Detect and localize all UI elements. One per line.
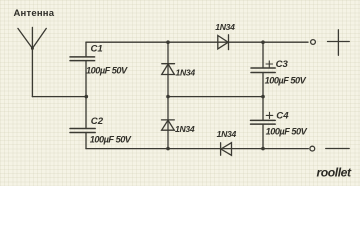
node top rail / C3 column junction: [261, 40, 265, 44]
svg-text:roollet: roollet: [317, 165, 352, 179]
plus mark C4: [266, 112, 273, 118]
node middle rail left junction: [166, 95, 170, 99]
value C1 100uF 50V: [86, 66, 128, 76]
label D4 1N34: [217, 129, 237, 139]
wire top rail: [86, 41, 308, 43]
wire C3 top lead: [262, 42, 264, 68]
svg-text:C2: C2: [91, 116, 104, 127]
capacitor C4: [251, 120, 276, 124]
capacitor C2: [70, 129, 95, 133]
label C1: [91, 44, 103, 55]
wire C2 bottom lead: [85, 133, 87, 149]
value C3 100uF 50V: [265, 76, 307, 86]
wire C1 to node A: [85, 61, 87, 97]
svg-text:100µF 50V: 100µF 50V: [265, 76, 307, 86]
svg-text:1N34: 1N34: [176, 68, 196, 78]
label C3: [276, 59, 289, 70]
wire bottom rail: [86, 148, 308, 150]
minus output symbol: [326, 148, 350, 150]
antenna: [18, 27, 46, 50]
terminal minus circle: [310, 146, 315, 151]
wire C1 top lead: [85, 42, 87, 57]
node A junction: [85, 95, 89, 99]
capacitor C3: [251, 68, 275, 73]
svg-text:1N34: 1N34: [217, 129, 237, 139]
svg-text:100µF 50V: 100µF 50V: [266, 127, 308, 137]
label C4: [276, 110, 289, 121]
svg-text:C1: C1: [91, 44, 103, 55]
svg-text:1N34: 1N34: [215, 22, 235, 32]
diode D3 1N34 lower: [162, 120, 175, 130]
wire C3 to C4: [262, 73, 264, 121]
diode D2 1N34 upper: [162, 64, 175, 75]
wire middle diode column: [167, 42, 169, 148]
wire C4 bottom lead: [262, 124, 264, 149]
plus mark C3: [266, 61, 273, 67]
value C4 100uF 50V: [266, 127, 308, 137]
plus output symbol: [328, 30, 350, 56]
diode D4 1N34 bottom rail: [221, 143, 232, 156]
svg-text:Антенна: Антенна: [14, 8, 55, 19]
wire antenna lead down: [31, 48, 33, 96]
svg-text:100µF 50V: 100µF 50V: [90, 135, 132, 145]
svg-text:C4: C4: [276, 110, 289, 121]
node middle rail right junction: [261, 95, 265, 99]
label C2: [91, 116, 104, 127]
label D2 1N34: [176, 68, 196, 78]
wire node A to C2: [85, 97, 87, 129]
watermark roollet: [317, 165, 352, 179]
diode D1 1N34 top rail: [218, 35, 229, 50]
label D1 1N34: [215, 22, 235, 32]
node top rail / diode column junction: [166, 40, 170, 44]
svg-text:100µF 50V: 100µF 50V: [86, 66, 128, 76]
wire antenna to node A: [32, 96, 86, 98]
node bottom rail / C4 column junction: [261, 147, 265, 151]
svg-text:1N34: 1N34: [175, 124, 195, 134]
value C2 100uF 50V: [90, 135, 132, 145]
label D3 1N34: [175, 124, 195, 134]
wire middle rail: [168, 96, 263, 98]
antenna label: [14, 8, 55, 19]
terminal plus circle: [311, 40, 316, 45]
node bottom rail / diode column junction: [166, 147, 170, 151]
capacitor C1: [70, 57, 95, 61]
svg-text:C3: C3: [276, 59, 289, 70]
